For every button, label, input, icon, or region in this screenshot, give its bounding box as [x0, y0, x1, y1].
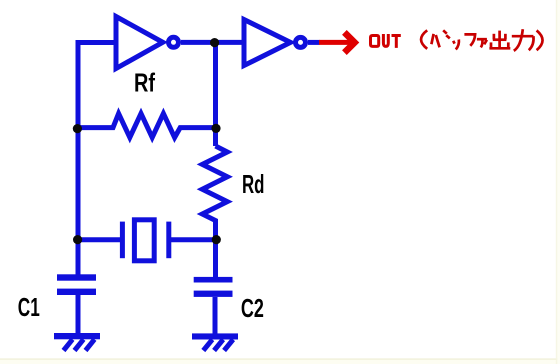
- svg-text:C1: C1: [18, 292, 40, 322]
- svg-text:Rf: Rf: [134, 67, 155, 97]
- svg-text:Rd: Rd: [242, 169, 265, 199]
- svg-text:C2: C2: [241, 293, 264, 323]
